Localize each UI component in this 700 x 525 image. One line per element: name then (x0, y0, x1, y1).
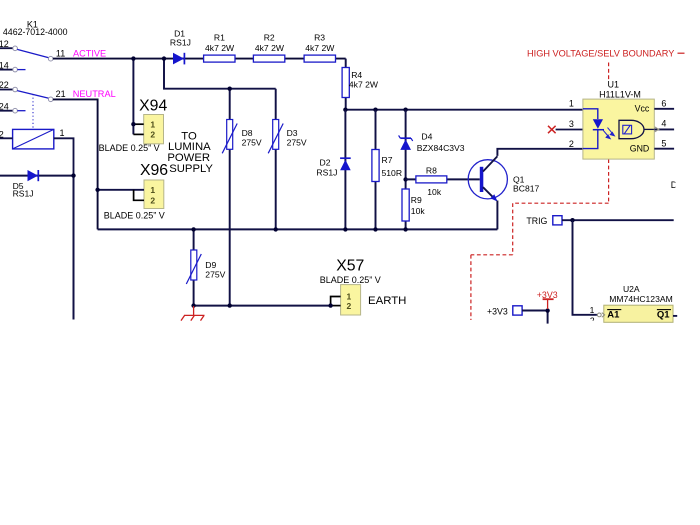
K1 contact 22 circle (13, 87, 18, 92)
svg-text:X57: X57 (336, 257, 364, 274)
wire ACTIVE run (53, 58, 346, 60)
resistor R3 (304, 55, 335, 62)
diode D2 (340, 158, 351, 170)
svg-text:D9: D9 (205, 260, 216, 270)
X96 pin 2 stub (134, 190, 144, 201)
svg-text:R1: R1 (214, 33, 225, 43)
svg-text:ACTIVE: ACTIVE (73, 49, 106, 59)
junction dot D9 top on rail (191, 227, 195, 231)
svg-text:BZX84C3V3: BZX84C3V3 (417, 143, 465, 153)
wire D8 column (229, 89, 231, 306)
wire +3V3 stub down (547, 311, 549, 324)
X57 pin numbers (347, 292, 352, 311)
resistor R4 (342, 68, 349, 98)
U1 pin labels left (569, 98, 574, 149)
U1 schmitt hysteresis glyph (623, 125, 632, 134)
relay K1 coil (13, 129, 54, 149)
power symbol +3V3 (537, 290, 558, 309)
junction dot R9 bottom (403, 227, 407, 231)
wire X94 drop (132, 59, 134, 135)
junction dot ACTIVE/X94 (131, 56, 135, 60)
svg-text:1: 1 (150, 119, 155, 129)
connector X57 body (341, 285, 361, 315)
svg-text:R3: R3 (314, 33, 325, 43)
optocoupler U1 body (583, 99, 654, 159)
diode D1 (173, 53, 184, 65)
svg-text:4k7 2W: 4k7 2W (205, 43, 235, 53)
svg-text:NEUTRAL: NEUTRAL (73, 89, 116, 99)
K1 contact 24 stub (17, 110, 25, 112)
X94 pin 2 stub (133, 133, 143, 135)
svg-text:11: 11 (56, 48, 65, 58)
svg-text:RS1J: RS1J (170, 37, 191, 47)
connector X94 body (144, 115, 164, 144)
wire Q1 emitter down (496, 201, 498, 230)
U1 LED arrows (603, 128, 614, 139)
K1 contact 24 circle (13, 108, 18, 113)
wire earth row (194, 305, 331, 307)
junction dot earth/D8 (228, 303, 232, 307)
svg-text:X96: X96 (140, 162, 168, 179)
svg-text:275V: 275V (242, 137, 262, 147)
connector X96 body (144, 180, 164, 209)
wire D9 column (193, 229, 195, 305)
svg-text:SUPPLY: SUPPLY (169, 163, 213, 175)
K1 contact 14 stub (17, 69, 25, 71)
+3V3 terminal square (513, 306, 522, 315)
svg-text:2: 2 (150, 195, 155, 205)
svg-text:BC817: BC817 (513, 183, 539, 193)
junction dot mid/R7 (373, 108, 377, 112)
svg-text:A1: A1 (607, 310, 620, 321)
svg-text:R8: R8 (426, 166, 437, 176)
wire vertical from coil/D5 junction down (73, 176, 75, 320)
junction dot coil/D5 (71, 173, 75, 177)
K1 contact 14 lead wire (0, 69, 13, 71)
transistor Q1 (468, 156, 507, 201)
svg-text:5: 5 (661, 139, 666, 149)
junction dot +3V3 (545, 308, 549, 312)
wire mid row to U1 pin1 (346, 109, 583, 111)
wire D3 column (275, 89, 277, 230)
svg-text:R9: R9 (411, 195, 422, 205)
resistor R1 (204, 55, 235, 62)
junction dot X94 pin1 (131, 122, 135, 126)
boundary dash top right (678, 52, 685, 54)
X94 pin numbers (150, 119, 155, 139)
junction dot ACTIVE/branch (162, 56, 166, 60)
junction dot D2 bottom (343, 227, 347, 231)
junction dot TRIG (570, 218, 574, 222)
coil pin 2 wire (0, 137, 13, 139)
svg-text:RS1J: RS1J (316, 168, 337, 178)
K1 contact arm 12-11 (17, 49, 49, 57)
svg-text:24: 24 (0, 101, 9, 111)
K1 contact 12 circle (13, 46, 18, 51)
svg-text:R2: R2 (264, 33, 275, 43)
svg-text:TRIG: TRIG (526, 216, 547, 226)
svg-text:RS1J: RS1J (13, 189, 34, 199)
X96 pin numbers (150, 185, 155, 206)
svg-text:4k7 2W: 4k7 2W (255, 43, 285, 53)
svg-text:+3V3: +3V3 (487, 306, 508, 316)
K1 contact 12 lead wire (0, 47, 13, 49)
U2A pin 1 chevron (602, 313, 605, 318)
svg-text:275V: 275V (205, 270, 225, 280)
wire D2 column (344, 110, 346, 230)
resistor R7 (372, 150, 379, 182)
wire R8 row (406, 178, 480, 180)
svg-text:4: 4 (661, 119, 666, 129)
monostable U2A body (604, 305, 673, 322)
wire D5 row (0, 175, 74, 177)
varistor D3 (268, 120, 283, 154)
wire U1 pin3 (556, 129, 583, 131)
svg-text:14: 14 (0, 60, 9, 70)
zener diode D4 (399, 135, 413, 150)
svg-text:6: 6 (661, 98, 666, 108)
TRIG terminal square (553, 216, 562, 225)
svg-text:510R: 510R (382, 168, 403, 178)
svg-text:4k7 2W: 4k7 2W (349, 80, 379, 90)
junction dot mid/D2 (343, 108, 347, 112)
svg-text:1: 1 (590, 305, 595, 315)
junction dot X57 (328, 303, 332, 307)
svg-text:2: 2 (569, 139, 574, 149)
U1 pin 5 wire (654, 148, 674, 150)
varistor D9 (186, 250, 201, 284)
U1 internal LED (593, 119, 604, 130)
K1 contact 21 circle (48, 97, 53, 102)
X96 pin 1 wire (98, 189, 144, 191)
X57 pin 1 stub (331, 297, 341, 306)
svg-text:1: 1 (59, 128, 64, 138)
svg-text:U2A: U2A (623, 284, 640, 294)
svg-text:D4: D4 (421, 132, 432, 142)
wire R7 column (375, 110, 377, 230)
wire D4/R9 column (405, 110, 407, 230)
K1 contact 22 lead wire (0, 89, 13, 91)
junction dot D4/R8/R9 (403, 177, 407, 181)
wire +3V3 row (522, 310, 548, 312)
svg-text:10k: 10k (427, 187, 442, 197)
svg-text:HIGH VOLTAGE/SELV BOUNDARY: HIGH VOLTAGE/SELV BOUNDARY (527, 49, 674, 59)
svg-text:BLADE 0.25” V: BLADE 0.25” V (320, 275, 381, 285)
svg-text:1: 1 (569, 98, 574, 108)
wire TRIG row (562, 219, 674, 221)
resistor R9 (402, 189, 409, 221)
U2A right stub (673, 315, 677, 317)
wire R4 column (345, 59, 347, 110)
wire TRIG down to U2A (573, 220, 597, 315)
K1 contact 14 circle (13, 67, 18, 72)
junction dot mid/D4 (403, 108, 407, 112)
svg-text:275V: 275V (287, 137, 307, 147)
X57 pin 2 stub (331, 305, 341, 307)
svg-text:4k7 2W: 4k7 2W (305, 43, 335, 53)
no-connect X on U1 pin3 (548, 126, 556, 133)
red dashed boundary (471, 63, 609, 321)
varistor D8 (222, 120, 237, 154)
svg-text:H11L1V-M: H11L1V-M (599, 90, 641, 100)
U1 pin 4 wire (654, 128, 674, 130)
svg-text:Vcc: Vcc (635, 104, 650, 114)
diode D5 (28, 170, 39, 181)
wire neutral bottom rail (98, 228, 498, 230)
svg-text:10k: 10k (411, 206, 426, 216)
junction dot earth/D9 (191, 303, 195, 307)
svg-text:R4: R4 (351, 70, 362, 80)
U2A A1 pin name (607, 310, 621, 321)
K1 contact arm 22-21 (17, 91, 49, 99)
svg-text:3: 3 (569, 119, 574, 129)
svg-text:D2: D2 (320, 158, 331, 168)
U2A Q1 pin name (657, 310, 671, 321)
junction dot X96 on neutral (95, 188, 99, 192)
X94 pin 1 stub (133, 123, 143, 125)
K1 contact 11 circle (48, 56, 53, 61)
wire Q1 collector to U1 pin2 (497, 149, 583, 156)
U1 output arrow (655, 127, 659, 132)
svg-text:BLADE 0.25” V: BLADE 0.25” V (99, 143, 160, 153)
svg-text:EARTH: EARTH (368, 295, 406, 307)
junction dot R7 bottom (373, 227, 377, 231)
wire NEUTRAL run (53, 99, 98, 229)
U1 pin labels right (661, 98, 666, 148)
svg-text:X94: X94 (139, 98, 167, 115)
K1 actuator dotted line (32, 94, 34, 129)
svg-text:2: 2 (347, 301, 352, 311)
junction dot D3 bottom on rail (274, 227, 278, 231)
svg-text:22: 22 (0, 80, 9, 90)
U2A pin 1 bubble (597, 313, 601, 317)
svg-text:1: 1 (150, 185, 155, 195)
U1 pin 6 wire (654, 108, 674, 110)
svg-text:2: 2 (150, 130, 155, 140)
relay K1 labels (3, 20, 68, 37)
svg-text:Q1: Q1 (657, 310, 670, 321)
svg-text:U1: U1 (608, 80, 620, 90)
U1 schmitt gate (619, 120, 654, 138)
svg-text:+3V3: +3V3 (537, 290, 558, 300)
coil pin 1 wire (54, 138, 74, 175)
svg-text:BLADE 0.25” V: BLADE 0.25” V (104, 210, 165, 220)
svg-text:GND: GND (630, 144, 650, 154)
svg-text:21: 21 (56, 89, 66, 99)
earth ground symbol (181, 306, 205, 321)
junction dot D8 top (228, 87, 232, 91)
wire varistor sub-branch (164, 59, 276, 89)
svg-text:R7: R7 (382, 155, 393, 165)
K1 contact 24 lead wire (0, 110, 13, 112)
text TO LUMINA POWER SUPPLY (167, 130, 213, 174)
U1 internal LED wiring (583, 109, 598, 119)
resistor R8 (416, 176, 447, 183)
svg-text:4462-7012-4000: 4462-7012-4000 (3, 27, 68, 37)
resistor R2 (253, 55, 284, 62)
svg-text:12: 12 (0, 39, 9, 49)
svg-text:MM74HC123AM: MM74HC123AM (609, 294, 673, 304)
